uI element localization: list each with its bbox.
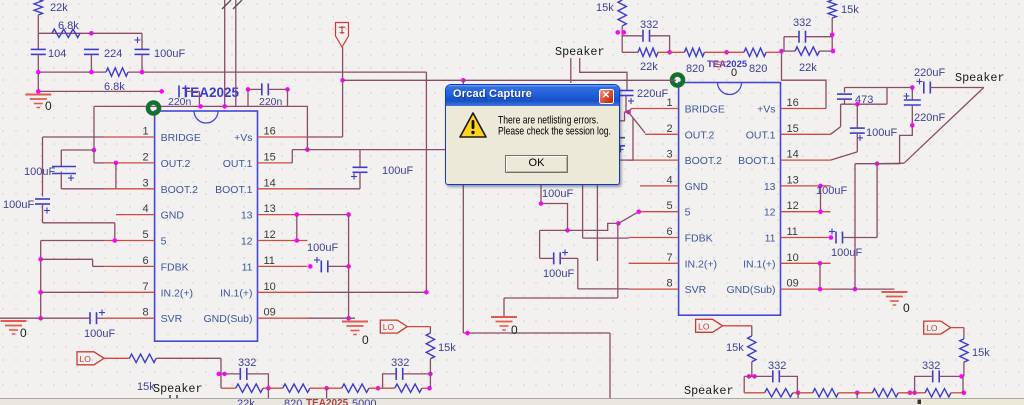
wire [369, 387, 395, 389]
svg-text:GND(Sub): GND(Sub) [726, 284, 775, 296]
svg-text:8: 8 [666, 278, 672, 290]
resistor 15k [960, 339, 991, 362]
svg-text:7: 7 [666, 252, 672, 264]
wire [540, 185, 542, 204]
wire pin09 gnd [831, 288, 895, 290]
svg-text:100uF: 100uF [84, 328, 115, 340]
capacitor 100uF C10 [850, 128, 865, 141]
wire [911, 105, 913, 125]
svg-text:224: 224 [104, 48, 122, 60]
label 0 [731, 67, 737, 79]
capacitor 100uF C5 [135, 37, 150, 54]
svg-text:332: 332 [922, 360, 940, 372]
label 220uF [914, 67, 945, 79]
wire [856, 133, 858, 152]
svg-text:IN.2(+): IN.2(+) [685, 258, 717, 270]
wire [855, 163, 877, 165]
wire [784, 50, 795, 52]
label 332 [640, 19, 658, 31]
svg-text:SVR: SVR [685, 284, 707, 296]
junction [855, 391, 860, 396]
label 100uF [84, 328, 115, 340]
svg-text:220uF: 220uF [637, 88, 668, 100]
resistor 22k [236, 384, 263, 392]
svg-text:13: 13 [264, 203, 276, 215]
wire [40, 241, 42, 319]
wire [845, 87, 913, 89]
pin stub [104, 188, 155, 190]
svg-text:820: 820 [686, 63, 704, 75]
wire [37, 15, 39, 49]
wire [462, 80, 464, 333]
wire [221, 373, 240, 375]
resistor 820 [872, 389, 898, 397]
resistor 22k [795, 47, 819, 74]
wire [247, 374, 269, 388]
junction [853, 287, 858, 292]
svg-text:0: 0 [362, 333, 369, 347]
wire [156, 357, 221, 359]
svg-text:5000: 5000 [352, 398, 376, 405]
junction [113, 238, 118, 243]
wire [856, 393, 858, 400]
wire [854, 164, 856, 289]
label TEA2025 [707, 59, 748, 70]
svg-text:100uF: 100uF [543, 268, 574, 280]
wire [911, 88, 913, 100]
wire bus [128, 71, 426, 73]
svg-text:13: 13 [241, 210, 253, 222]
svg-text:15k: 15k [596, 2, 614, 14]
wire pin15 net [292, 149, 445, 151]
ground mini [712, 62, 726, 69]
junction [830, 33, 835, 38]
label 5000 cut [352, 398, 376, 405]
junction [217, 372, 222, 377]
wire [343, 79, 464, 81]
svg-text:11: 11 [264, 255, 275, 267]
svg-text:GND: GND [685, 181, 709, 193]
svg-text:22k: 22k [799, 62, 817, 74]
svg-text:100uF: 100uF [866, 127, 897, 139]
label 100uF [154, 48, 185, 60]
resistor 6.8k [104, 68, 128, 93]
wire [779, 376, 797, 392]
svg-text:820: 820 [284, 398, 302, 405]
dialog: Orcad Capture message box [445, 84, 620, 185]
svg-text:12: 12 [264, 229, 276, 241]
wire [263, 387, 283, 389]
wire diagonal [618, 212, 638, 224]
pin stub [781, 185, 831, 187]
warning icon [458, 111, 488, 140]
svg-text:BRIDGE: BRIDGE [161, 132, 201, 144]
wire [820, 186, 822, 212]
wire [540, 229, 568, 231]
wire pin16 staple [782, 51, 827, 108]
wire [104, 357, 129, 359]
wire [37, 54, 39, 91]
svg-text:100uF: 100uF [816, 185, 847, 197]
wire [617, 223, 619, 298]
wire [221, 387, 236, 389]
pin stub [781, 262, 831, 264]
pin stub [629, 262, 679, 264]
wire [296, 215, 298, 241]
svg-text:Speaker: Speaker [555, 45, 605, 59]
svg-text:332: 332 [238, 357, 256, 369]
svg-text:15k: 15k [841, 4, 859, 16]
svg-text:22k: 22k [640, 61, 658, 73]
junction [962, 391, 967, 396]
svg-text:5: 5 [142, 229, 148, 241]
wire [723, 325, 752, 327]
label 220n [168, 96, 192, 108]
label 100uF [24, 166, 55, 178]
resistor 15k [129, 354, 156, 393]
wire [224, 0, 226, 106]
junction [427, 386, 432, 391]
svg-text:5: 5 [161, 236, 167, 248]
wire [407, 326, 430, 328]
svg-text:16: 16 [264, 126, 276, 138]
label 100uF [382, 165, 413, 177]
junction [465, 331, 470, 336]
svg-text:TEA2025: TEA2025 [182, 85, 240, 100]
wire diagonal [629, 112, 646, 133]
wire [287, 89, 289, 106]
resistor 22k [638, 48, 658, 73]
wire [61, 149, 94, 151]
svg-text:8: 8 [142, 307, 148, 319]
svg-text:OUT.2: OUT.2 [685, 129, 715, 141]
wire pin3 [61, 188, 104, 190]
junction [667, 50, 672, 55]
port LO [924, 321, 951, 334]
junction [615, 30, 620, 35]
junction [159, 89, 164, 94]
svg-text:7: 7 [142, 281, 148, 293]
junction [796, 391, 801, 396]
IC U2 TEA2025 [666, 83, 798, 316]
svg-text:BOOT.2: BOOT.2 [685, 155, 723, 167]
power symbol [336, 23, 349, 48]
svg-text:LO: LO [383, 322, 395, 332]
wire [540, 257, 554, 259]
label 332 [768, 360, 786, 372]
wire [951, 327, 964, 329]
junction [376, 386, 381, 391]
svg-text:10: 10 [787, 252, 799, 264]
wire [930, 87, 984, 89]
wire [422, 387, 431, 389]
junction [92, 148, 97, 153]
wire [186, 90, 200, 92]
port LO [77, 352, 104, 365]
wire [900, 125, 913, 147]
junction [747, 374, 752, 379]
label 820 cut [284, 398, 302, 405]
pin stub [781, 159, 831, 161]
wire [915, 376, 933, 392]
svg-text:14: 14 [787, 149, 799, 161]
svg-text:22k: 22k [237, 398, 255, 405]
resistor 820 [283, 384, 310, 392]
wire [383, 374, 397, 388]
svg-text:100uF: 100uF [3, 199, 34, 211]
label 220n [259, 96, 283, 108]
wire [310, 387, 342, 389]
capacitor 100uF C1 [52, 167, 76, 182]
svg-text:15k: 15k [972, 347, 990, 359]
junction [305, 147, 310, 152]
svg-text:GND(Sub): GND(Sub) [203, 313, 252, 325]
wire [541, 204, 568, 231]
wire [596, 185, 598, 261]
svg-text:SVR: SVR [161, 313, 183, 325]
junction [89, 70, 94, 75]
wire [886, 88, 888, 105]
junction [461, 78, 466, 83]
svg-text:+Vs: +Vs [757, 104, 775, 116]
junction [198, 104, 203, 109]
pin stub [781, 133, 831, 135]
junction [565, 228, 570, 233]
svg-text:0: 0 [511, 323, 518, 337]
svg-text:6.8k: 6.8k [58, 20, 79, 32]
junction [779, 49, 784, 54]
label 220nF [914, 112, 945, 124]
junction [346, 264, 351, 269]
wire [650, 36, 670, 53]
wire [403, 373, 431, 375]
junction [324, 386, 329, 391]
wire [819, 263, 821, 289]
capacitor 220nF [904, 93, 921, 105]
wire [843, 237, 878, 239]
wire [41, 258, 93, 260]
wire [609, 333, 611, 400]
wire pin6 [93, 265, 104, 267]
pin stub [258, 291, 308, 293]
capacitor 332 [396, 368, 403, 380]
wire [38, 32, 91, 34]
OK button [505, 155, 568, 173]
svg-text:09: 09 [787, 278, 799, 290]
svg-text:13: 13 [787, 174, 799, 186]
pin stub [258, 136, 308, 138]
wire [42, 204, 44, 223]
junction [908, 391, 913, 396]
wire [235, 0, 237, 106]
svg-text:100uF: 100uF [542, 188, 573, 200]
pin stub [629, 159, 679, 161]
resistor 22k [925, 389, 951, 397]
junction [539, 201, 544, 206]
pin stub [640, 185, 679, 187]
svg-text:5: 5 [666, 200, 672, 212]
wire [877, 147, 900, 164]
pin stub [640, 211, 679, 213]
resistor 15k [596, 0, 626, 26]
capacitor 220n [179, 85, 186, 97]
junction [38, 290, 43, 295]
junction [752, 374, 757, 379]
junction [222, 372, 227, 377]
junction [36, 70, 41, 75]
wire [38, 90, 161, 92]
svg-text:LO: LO [80, 354, 92, 364]
svg-text:3: 3 [666, 149, 672, 161]
svg-text:100uF: 100uF [382, 165, 413, 177]
pin stub [104, 265, 155, 267]
svg-text:LO: LO [926, 323, 938, 333]
capacitor 100uF C7 [554, 250, 568, 265]
svg-text:TEA2025: TEA2025 [707, 59, 748, 70]
junction [626, 110, 631, 115]
wire [60, 150, 62, 166]
label 100uF [543, 268, 574, 280]
svg-text:0: 0 [20, 326, 27, 340]
resistor 820 [744, 48, 767, 75]
junction [346, 316, 351, 321]
junction [724, 50, 729, 55]
svg-text:2: 2 [666, 123, 672, 135]
wire [568, 223, 619, 230]
svg-text:IN.1(+): IN.1(+) [220, 287, 252, 299]
wire pin6 net [583, 237, 629, 239]
wire diagonal [629, 109, 632, 113]
svg-text:IN.1(+): IN.1(+) [743, 258, 775, 270]
pin stub [116, 214, 155, 216]
svg-text:4: 4 [666, 174, 672, 186]
off-page marks [222, 0, 242, 9]
wire pin8 net [578, 288, 629, 290]
label 332 [391, 357, 409, 369]
label 104 [48, 48, 66, 60]
wire [93, 106, 95, 150]
wire [766, 51, 781, 53]
wire [463, 332, 610, 334]
svg-text:09: 09 [264, 307, 276, 319]
wire [326, 388, 328, 399]
svg-text:TEA2025: TEA2025 [306, 398, 349, 405]
svg-text:OUT.1: OUT.1 [223, 158, 253, 170]
svg-text:BOOT.1: BOOT.1 [215, 184, 253, 196]
wire [306, 106, 308, 149]
wire [963, 362, 965, 376]
capacitor 220uF [619, 91, 635, 105]
junction [831, 49, 836, 54]
svg-text:332: 332 [768, 360, 786, 372]
wire [704, 51, 744, 53]
label 473 [855, 94, 873, 106]
wire [268, 88, 287, 90]
junction [959, 374, 964, 379]
wire [504, 297, 618, 299]
label Speaker [684, 384, 734, 398]
pin stub [258, 188, 308, 190]
wire [783, 37, 785, 51]
wire [622, 35, 643, 37]
capacitor 100uF C11 [829, 229, 843, 244]
label 100uF [866, 127, 897, 139]
ground [491, 317, 518, 337]
wire diagonal [831, 152, 858, 160]
wire [744, 375, 773, 377]
svg-text:6: 6 [666, 226, 672, 238]
junction [622, 30, 627, 35]
wire [856, 104, 858, 127]
port LO [380, 320, 407, 333]
ground [881, 292, 910, 315]
wire pin09 [308, 317, 356, 319]
wire pin14 [308, 188, 361, 190]
wire [840, 104, 842, 127]
resistor 820 [342, 384, 369, 392]
dialog close button [599, 89, 614, 104]
wire [580, 58, 627, 90]
svg-text:1: 1 [142, 126, 148, 138]
wire [951, 392, 964, 394]
svg-text:220uF: 220uF [914, 67, 945, 79]
svg-text:11: 11 [242, 261, 253, 273]
svg-text:0: 0 [45, 99, 52, 113]
bottom strip [0, 399, 1024, 405]
wire [939, 375, 963, 377]
wire [560, 257, 578, 259]
ERC marker [672, 75, 683, 86]
svg-text:12: 12 [787, 200, 799, 212]
label 100uF [542, 188, 573, 200]
capacitor 220uF C9 [917, 79, 931, 94]
resistor 15k [828, 0, 859, 18]
junction [114, 161, 119, 166]
pin stub [781, 288, 831, 290]
wire [291, 150, 293, 163]
junction [829, 235, 834, 240]
svg-text:11: 11 [765, 233, 776, 245]
wire pin8 gnd [0, 317, 89, 319]
wire [797, 393, 799, 400]
label TEA2025 [182, 85, 240, 100]
junction [285, 87, 290, 92]
resistor 22k [395, 384, 422, 392]
label 332 [793, 17, 811, 29]
resistor 6.8k [52, 20, 80, 38]
pin stub [104, 162, 155, 164]
svg-text:104: 104 [48, 48, 66, 60]
wire [90, 54, 92, 72]
label 100uF [307, 242, 338, 254]
junction [875, 161, 880, 166]
junction [818, 209, 823, 214]
capacitor 104 [31, 49, 46, 54]
ERC marker [148, 103, 159, 114]
junction [616, 221, 621, 226]
junction [295, 238, 300, 243]
svg-text:4: 4 [142, 203, 148, 215]
wire [582, 185, 584, 238]
wire [751, 362, 753, 377]
junction [295, 212, 300, 217]
svg-text:6: 6 [142, 255, 148, 267]
pin stub [104, 136, 155, 138]
label 332 [922, 360, 940, 372]
capacitor 332 [240, 368, 247, 380]
ground [25, 95, 52, 114]
wire [751, 326, 753, 336]
